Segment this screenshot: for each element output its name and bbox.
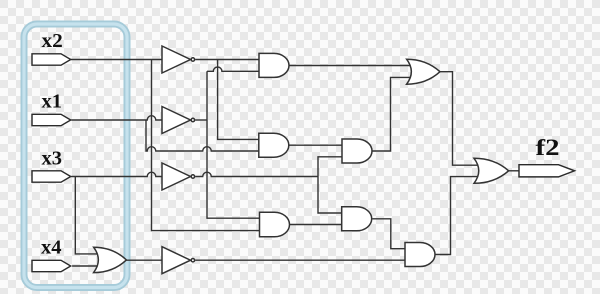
inverter U1 (x2') xyxy=(162,46,191,73)
wire inverter U1 output to AND1 upper input xyxy=(195,59,261,61)
wire x2 to inverter U1 xyxy=(71,59,162,61)
svg-text:x2: x2 xyxy=(42,30,63,52)
and gate AND2 xyxy=(259,133,289,157)
wire x4 to OR1 lower input xyxy=(72,265,100,267)
wire x1 to inverter U2 (hop over v1) xyxy=(71,116,162,120)
and gate AND3 xyxy=(260,212,290,237)
or gate OR3 xyxy=(474,158,509,183)
inverter U4 xyxy=(162,247,191,274)
wire/node v1: x2 branch down to AND3 lower input xyxy=(152,60,262,231)
and gate AND1 xyxy=(259,53,289,77)
wire AND1 output to OR2 upper input xyxy=(289,65,412,67)
wire inverter U4 output to AND6 lower input xyxy=(195,259,407,261)
wire/node v4: U1 output branch down to AND2 upper input xyxy=(218,60,261,140)
svg-text:x4: x4 xyxy=(41,237,62,259)
wire/node v3: x3 branch down to OR1 upper input xyxy=(75,177,100,254)
wire v5 corner to AND1 lower input (hop over v4) xyxy=(207,67,261,71)
output tag f2 xyxy=(519,165,575,177)
wire AND5 output down to AND6 upper input xyxy=(372,219,407,249)
input tag x1 xyxy=(32,114,71,125)
input tag x3 xyxy=(32,171,71,182)
wire x3 to inverter U3 (hop over v1) xyxy=(71,172,162,176)
wire/node v5: U2 output up to AND1 lower input (hop over v4) and down to AND3 upper input xyxy=(207,71,261,218)
wire/node v2: x1 branch down to AND2 lower input (hops over v1 and v5) xyxy=(146,120,261,151)
input tag x2 xyxy=(32,54,71,65)
wire OR3 output to f2 tag xyxy=(509,170,520,172)
wire OR1 output to inverter U4 xyxy=(126,259,162,261)
input group box (blue rounded rectangle) xyxy=(24,24,127,288)
and gate AND4 xyxy=(342,139,372,163)
and gate AND5 xyxy=(342,207,372,231)
svg-text:x1: x1 xyxy=(42,91,63,113)
wire inverter U2 output to node v5 xyxy=(195,119,207,121)
svg-text:f2: f2 xyxy=(536,135,560,160)
wire inverter U3 output to node v6 (hop over v5) xyxy=(195,172,318,176)
wire AND2 output to AND4 upper input xyxy=(289,144,344,146)
wire/node v6: U3 output up to AND4 lower input and down to AND5 upper input xyxy=(318,157,344,213)
and gate AND6 xyxy=(405,243,435,267)
svg-text:x3: x3 xyxy=(42,147,63,169)
or gate OR2 xyxy=(407,59,440,84)
wire AND3 output to AND5 lower input xyxy=(290,224,344,226)
inverter U2 (x1') xyxy=(162,107,191,134)
wire AND6 output up to OR3 lower input xyxy=(435,177,480,255)
wire AND4 output up to OR2 lower input xyxy=(372,77,412,151)
inverter U3 (x3') xyxy=(162,163,191,190)
wire OR2 output down to OR3 upper input xyxy=(440,72,480,166)
or gate OR1 xyxy=(94,247,127,272)
input tag x4 xyxy=(32,260,71,271)
